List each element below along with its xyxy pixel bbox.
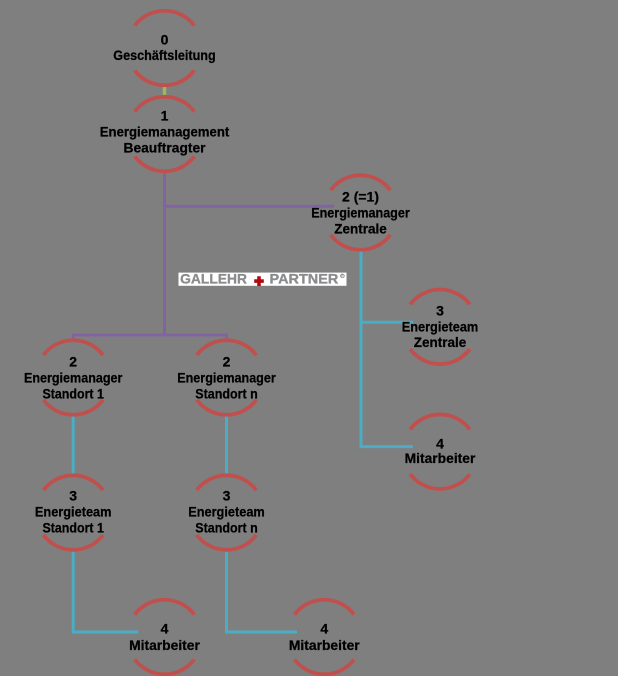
wire cyan: node 2 Standort 1 to node 3 Standort 1 bbox=[72, 415, 75, 476]
svg-text:Standort 1: Standort 1 bbox=[42, 386, 104, 402]
svg-text:Mitarbeiter: Mitarbeiter bbox=[289, 637, 360, 653]
svg-text:2: 2 bbox=[223, 354, 231, 370]
svg-text:Mitarbeiter: Mitarbeiter bbox=[129, 637, 200, 653]
svg-text:Mitarbeiter: Mitarbeiter bbox=[405, 450, 476, 466]
wire purple: vertical from node 1 bbox=[163, 172, 166, 337]
node 0 Geschäftsleitung: circle bbox=[135, 11, 195, 86]
wire purple: drop to node 2 Standort 1 bbox=[72, 335, 75, 342]
svg-text:4: 4 bbox=[161, 621, 169, 637]
node 3 Energieteam Standort 1: circle bbox=[43, 475, 103, 550]
svg-text:Energieteam: Energieteam bbox=[402, 319, 479, 335]
svg-text:Energiemanager: Energiemanager bbox=[177, 370, 276, 386]
svg-text:2 (=1): 2 (=1) bbox=[342, 189, 379, 205]
svg-text:Standort n: Standort n bbox=[195, 520, 258, 536]
node 2 Energiemanager Standort 1: circle bbox=[43, 340, 103, 415]
svg-text:Standort 1: Standort 1 bbox=[42, 520, 104, 536]
node 4 Mitarbeiter middle: circle bbox=[295, 600, 355, 675]
node 4 Mitarbeiter left: circle bbox=[135, 600, 195, 675]
wire cyan: branch to node 4 Mitarbeiter right bbox=[360, 445, 414, 448]
svg-text:Energiemanager: Energiemanager bbox=[24, 370, 123, 386]
svg-text:Energieteam: Energieteam bbox=[35, 504, 112, 520]
svg-text:1: 1 bbox=[161, 108, 169, 124]
svg-text:3: 3 bbox=[436, 303, 444, 319]
wire purple: drop to node 2 Standort n bbox=[225, 335, 228, 342]
svg-text:4: 4 bbox=[320, 621, 328, 637]
svg-text:2: 2 bbox=[69, 354, 77, 370]
logo red plus bbox=[254, 276, 264, 286]
logo registered mark circle bbox=[341, 274, 345, 278]
wire cyan: elbow node 3 Standort 1 to node 4 left bbox=[73, 550, 138, 633]
svg-text:Standort n: Standort n bbox=[195, 386, 258, 402]
svg-text:PARTNER: PARTNER bbox=[270, 272, 339, 287]
node 2 Energiemanager Standort n: circle bbox=[197, 340, 257, 415]
wire cyan: node 2 Standort n to node 3 Standort n bbox=[225, 415, 228, 476]
logo GALLEHR + PARTNER background plate bbox=[179, 273, 347, 286]
node 2 (=1) Energiemanager Zentrale: circle bbox=[331, 175, 391, 250]
svg-text:Zentrale: Zentrale bbox=[334, 221, 387, 237]
wire cyan: branch to node 3 Energieteam Zentrale bbox=[360, 321, 414, 324]
svg-text:Beauftragter: Beauftragter bbox=[124, 140, 207, 156]
svg-text:Energiemanager: Energiemanager bbox=[311, 205, 410, 221]
svg-text:3: 3 bbox=[69, 488, 77, 504]
svg-text:3: 3 bbox=[223, 488, 231, 504]
svg-text:Energiemanagement: Energiemanagement bbox=[100, 124, 230, 140]
node 4 Mitarbeiter right: circle bbox=[410, 414, 470, 489]
wire purple: horizontal bus above Standort nodes bbox=[72, 334, 228, 337]
node 1 Energiemanagement Beauftragter: circle bbox=[135, 97, 195, 172]
svg-text:Geschäftsleitung: Geschäftsleitung bbox=[113, 47, 216, 63]
node 3 Energieteam Standort n: circle bbox=[197, 475, 257, 550]
wire green: node 0 to node 1 bbox=[163, 85, 167, 96]
svg-text:Energieteam: Energieteam bbox=[188, 504, 265, 520]
svg-text:0: 0 bbox=[161, 32, 169, 48]
svg-text:GALLEHR: GALLEHR bbox=[180, 272, 247, 287]
wire cyan: elbow node 3 Standort n to node 4 middle bbox=[227, 550, 298, 633]
wire cyan: vertical from node 2 (=1) Zentrale bbox=[360, 249, 363, 447]
wire purple: branch to Energiemanager Zentrale bbox=[163, 205, 334, 208]
svg-text:Zentrale: Zentrale bbox=[414, 334, 467, 350]
node 3 Energieteam Zentrale: circle bbox=[410, 290, 470, 365]
